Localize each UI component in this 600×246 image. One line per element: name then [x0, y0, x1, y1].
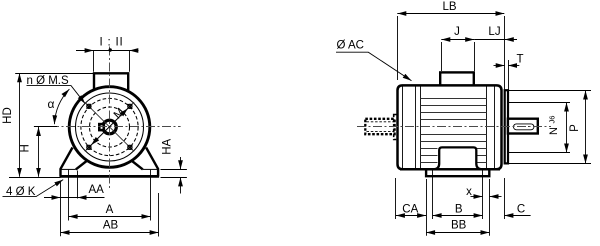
cooling fins [421, 99, 487, 163]
key [99, 124, 104, 130]
bolt hole bottom-right [128, 145, 133, 150]
face plate right [505, 90, 508, 163]
shaft stub [508, 119, 538, 134]
dim A [69, 216, 151, 218]
vertical centerline [109, 47, 111, 190]
base plate (side) [426, 170, 489, 177]
diagonal centerline through holes NE-SW [85, 102, 134, 151]
svg-text:HD: HD [2, 107, 14, 124]
bottom line under body [400, 168, 500, 170]
pad inner extension [77, 171, 79, 199]
svg-text:H: H [20, 144, 32, 152]
svg-text:B: B [455, 203, 463, 215]
left foot [61, 148, 89, 177]
svg-text:α: α [48, 97, 55, 111]
dim x [471, 196, 483, 198]
svg-text:J6: J6 [548, 116, 557, 124]
svg-text:A: A [106, 204, 114, 216]
svg-text:BB: BB [451, 220, 467, 232]
motor body outline [398, 85, 502, 169]
horizontal centerline [34, 126, 181, 128]
svg-text:x: x [466, 186, 472, 198]
svg-text:C: C [517, 203, 525, 215]
bolt hole bottom-left [87, 145, 92, 150]
svg-text:P: P [569, 124, 581, 132]
outer circle [69, 87, 150, 168]
endbell rim lines [403, 87, 495, 170]
foot hole centerlines extended [68, 170, 70, 221]
dim AB [61, 232, 159, 234]
dim C [504, 215, 530, 217]
dim H [34, 126, 57, 128]
foot block (side) [434, 147, 482, 169]
dimension M line with arrows [91, 108, 128, 145]
dashed second shaft end [365, 115, 397, 140]
inner rim circle [76, 93, 144, 161]
dim B [433, 215, 483, 217]
dim AA [44, 197, 105, 199]
svg-text:Ø AC: Ø AC [337, 40, 364, 52]
keyway slot [514, 124, 534, 130]
dim J / LJ [442, 42, 475, 71]
right foot [130, 148, 158, 177]
dim HD [15, 73, 94, 75]
dim LB [398, 16, 505, 90]
shaft circle [103, 120, 117, 134]
dim HA [161, 170, 187, 178]
svg-text:CA: CA [402, 203, 418, 215]
terminal box front [94, 73, 128, 91]
diagonal centerline through holes NW-SE [85, 102, 134, 151]
side centerline [357, 126, 551, 128]
dim I:II [76, 50, 139, 72]
svg-text:AA: AA [89, 184, 105, 196]
svg-text:HA: HA [162, 138, 174, 154]
svg-text:I : II: I : II [100, 37, 124, 49]
bolt pitch circle (dashed) [81, 98, 138, 155]
svg-text:N: N [548, 127, 560, 135]
dim N J6 [508, 103, 571, 153]
inner dashed circle [90, 107, 130, 147]
dim CA [396, 215, 426, 217]
svg-text:LJ: LJ [488, 26, 500, 38]
bottom extension lines side view [396, 170, 505, 236]
terminal box side [440, 72, 474, 86]
dim P [508, 91, 592, 164]
svg-text:AB: AB [103, 220, 119, 232]
foot outer extension lines [60, 181, 62, 237]
dim BB [426, 232, 489, 234]
base extension left [9, 177, 61, 179]
bolt hole top-left [87, 104, 92, 109]
base line [60, 175, 160, 178]
svg-text:T: T [516, 54, 523, 66]
dim T [508, 60, 510, 90]
svg-text:J: J [454, 26, 460, 38]
svg-text:LB: LB [442, 1, 456, 13]
bolt hole top-right [128, 104, 133, 109]
